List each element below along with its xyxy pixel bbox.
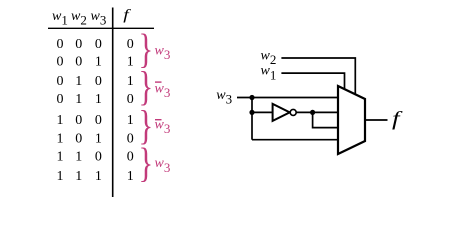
svg-text:w2: w2	[71, 9, 87, 27]
svg-text:0: 0	[57, 92, 64, 107]
svg-text:w3: w3	[155, 156, 171, 175]
svg-text:1: 1	[95, 169, 102, 184]
svg-text:1: 1	[75, 150, 82, 165]
svg-text:0: 0	[127, 150, 134, 165]
table row 7: 1 1 0 | 0	[57, 150, 134, 165]
inverter (NOT gate) triangle	[273, 104, 290, 121]
svg-text:0: 0	[57, 37, 64, 52]
svg-text:w3: w3	[155, 81, 171, 100]
svg-text:w3: w3	[91, 9, 107, 27]
table row 6: 1 0 1 | 0	[57, 131, 134, 146]
svg-text:0: 0	[127, 131, 134, 146]
svg-text:1: 1	[95, 131, 102, 146]
svg-text:0: 0	[75, 113, 82, 128]
wire w2 select	[281, 58, 355, 94]
junction dot at inverter input	[249, 110, 254, 115]
svg-text:w3: w3	[155, 44, 171, 63]
table vertical rule	[112, 8, 114, 198]
svg-text:1: 1	[75, 74, 82, 89]
svg-text:w1: w1	[52, 9, 68, 27]
svg-text:1: 1	[127, 55, 134, 70]
wire branch to mux input 2	[313, 112, 338, 127]
multiplexer U1 (4-to-1 mux trapezoid)	[338, 86, 365, 154]
svg-text:1: 1	[57, 131, 64, 146]
svg-text:1: 1	[57, 150, 64, 165]
table row 3: 0 1 0 | 1	[57, 74, 134, 89]
wire bottom branch to mux input 3	[252, 139, 338, 141]
svg-text:0: 0	[75, 37, 82, 52]
svg-text:0: 0	[95, 113, 102, 128]
table row 5: 1 0 0 | 1	[57, 113, 134, 128]
svg-text:}: }	[139, 141, 154, 186]
wire w1 select	[281, 73, 344, 89]
table row 2: 0 0 1 | 1	[57, 55, 134, 70]
overline of w3bar group 3	[155, 119, 162, 121]
svg-text:0: 0	[57, 74, 64, 89]
svg-text:1: 1	[75, 169, 82, 184]
svg-text:1: 1	[95, 55, 102, 70]
svg-text:0: 0	[95, 150, 102, 165]
junction dot on w3 line	[249, 95, 254, 100]
svg-text:f: f	[123, 7, 131, 23]
table row 1: 0 0 0 | 0	[57, 37, 134, 52]
svg-text:0: 0	[127, 37, 134, 52]
table row 4: 0 1 1 | 0	[57, 92, 134, 107]
svg-text:1: 1	[95, 92, 102, 107]
wire inverter output to mux input 1	[296, 111, 338, 113]
wire vertical branch from w3	[251, 98, 253, 140]
svg-text:0: 0	[95, 74, 102, 89]
svg-text:1: 1	[57, 113, 64, 128]
svg-text:0: 0	[57, 55, 64, 70]
table row 8: 1 1 1 | 1	[57, 169, 134, 184]
svg-text:w3: w3	[216, 88, 232, 107]
svg-text:w3: w3	[155, 118, 171, 137]
svg-text:f: f	[392, 108, 403, 130]
wire mux output	[365, 119, 388, 121]
wire w3 to mux input 0	[237, 97, 338, 99]
svg-text:1: 1	[127, 113, 134, 128]
svg-text:0: 0	[75, 131, 82, 146]
svg-text:1: 1	[75, 92, 82, 107]
junction dot on inverter output	[310, 110, 315, 115]
svg-text:1: 1	[57, 169, 64, 184]
overline of w3bar group 2	[155, 81, 162, 83]
svg-text:w1: w1	[261, 64, 277, 83]
svg-text:1: 1	[127, 74, 134, 89]
svg-text:0: 0	[75, 55, 82, 70]
svg-text:0: 0	[95, 37, 102, 52]
wire to inverter input	[252, 111, 273, 113]
inverter bubble	[290, 109, 296, 115]
svg-text:1: 1	[127, 169, 134, 184]
table horizontal rule	[48, 27, 154, 29]
svg-text:0: 0	[127, 92, 134, 107]
